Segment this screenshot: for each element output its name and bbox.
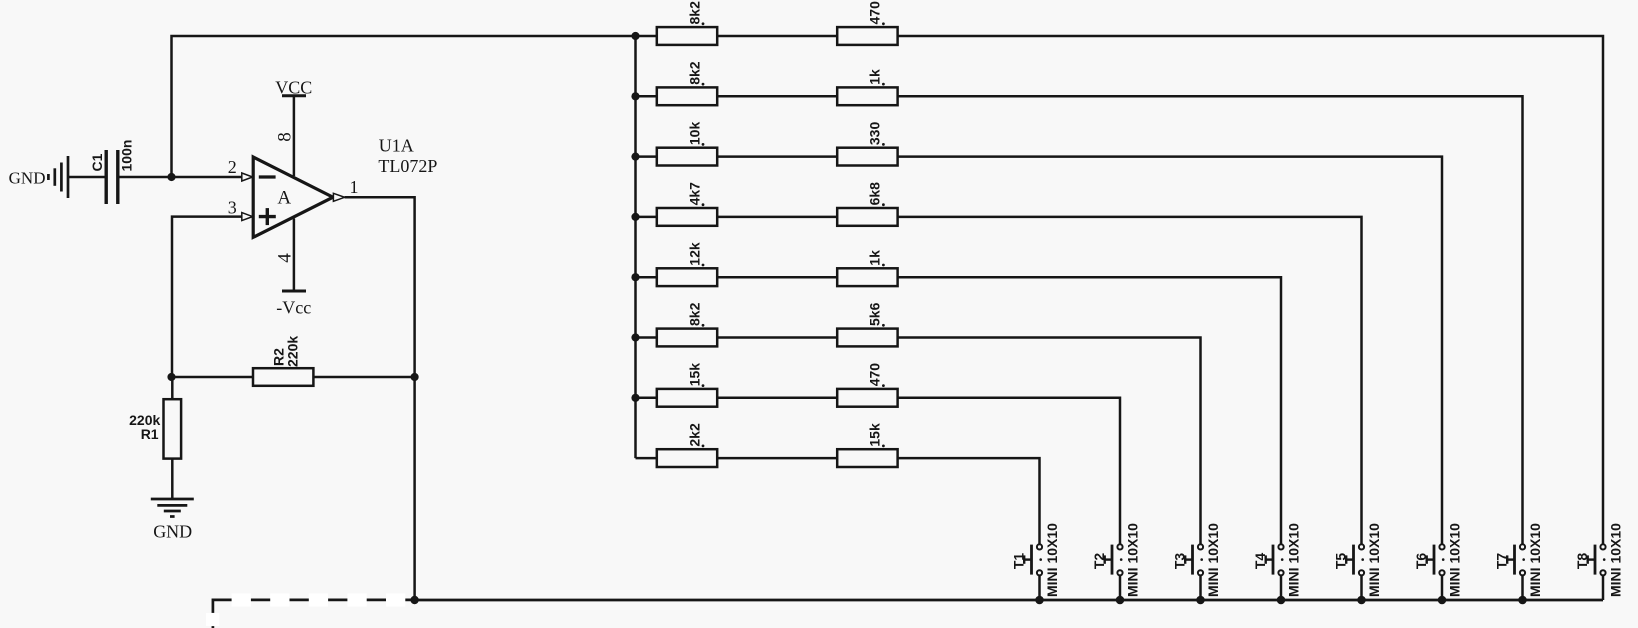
node junction C1/pin2/top wire xyxy=(167,173,175,181)
wire row 2: to switch T7 xyxy=(898,96,1523,543)
resistor R2 220k xyxy=(253,336,313,386)
switch T6 MINI 10X10 xyxy=(1413,523,1462,600)
wire row 1: bus to first resistor xyxy=(636,35,657,38)
node junction bus row 3 xyxy=(631,153,639,161)
node junction bus T1 xyxy=(1035,596,1044,605)
wire row 2: bus to first resistor xyxy=(636,95,657,98)
svg-text:T5: T5 xyxy=(1333,553,1349,570)
svg-text:1: 1 xyxy=(350,177,359,197)
node junction bus T5 xyxy=(1357,596,1366,605)
svg-text:12k: 12k xyxy=(686,242,702,266)
op-amp U1A TL072P xyxy=(228,132,359,263)
node junction bus T7 xyxy=(1518,596,1527,605)
node junction bus row 7 xyxy=(631,394,639,402)
switch T1 MINI 10X10 xyxy=(1011,523,1060,600)
wire row 1: between resistors xyxy=(717,35,837,38)
svg-text:MINI 10X10: MINI 10X10 xyxy=(1527,523,1543,597)
svg-text:1k: 1k xyxy=(867,69,883,85)
svg-text:1k: 1k xyxy=(867,250,883,266)
wire row 1: to switch T8 xyxy=(898,36,1603,544)
svg-text:8k2: 8k2 xyxy=(686,61,702,85)
power VCC rail (pin 8) xyxy=(275,77,312,176)
wire row 6: to switch T3 xyxy=(898,338,1201,544)
wire row 3: bus to first resistor xyxy=(636,155,657,158)
node junction dashed/bus xyxy=(410,596,418,604)
node junction bus T4 xyxy=(1277,596,1286,605)
wire row 6: bus to first resistor xyxy=(636,336,657,339)
wire row 8: to switch T1 xyxy=(898,458,1040,543)
svg-text:5k6: 5k6 xyxy=(867,302,883,326)
wire row 7: to switch T2 xyxy=(898,398,1120,544)
svg-text:MINI 10X10: MINI 10X10 xyxy=(1285,523,1301,597)
svg-text:330: 330 xyxy=(867,122,883,146)
resistor 2k2 (row 8, first) xyxy=(657,423,717,467)
svg-text:2: 2 xyxy=(228,157,237,177)
wire op-amp output down to feedback xyxy=(345,197,415,377)
power -Vcc rail (pin 4) xyxy=(276,219,311,318)
switch T8 MINI 10X10 xyxy=(1574,523,1623,600)
resistor 4k7 (row 4, first) xyxy=(657,182,717,226)
svg-text:220k: 220k xyxy=(285,336,301,367)
wire R2 to output node xyxy=(313,376,414,379)
wire row 2: between resistors xyxy=(717,95,837,98)
resistor 6k8 (row 4, second) xyxy=(837,182,897,226)
switch T3 MINI 10X10 xyxy=(1172,523,1221,600)
resistor 470 (row 7, second) xyxy=(837,363,897,407)
node junction bus row 6 xyxy=(631,333,639,341)
wire C1 to op-amp pin 2 xyxy=(118,176,242,179)
resistor 10k (row 3, first) xyxy=(657,122,717,166)
wire row 4: to switch T5 xyxy=(898,217,1362,544)
resistor 330 (row 3, second) xyxy=(837,122,897,166)
wire row 5: to switch T4 xyxy=(898,277,1281,543)
svg-text:4: 4 xyxy=(274,253,295,263)
wire output node down to bottom bus xyxy=(413,377,416,600)
svg-text:470: 470 xyxy=(867,1,883,25)
capacitor C1 100n xyxy=(89,140,135,204)
wire row 8: bus to first resistor xyxy=(636,457,657,460)
label U1A TL072P xyxy=(378,135,437,176)
svg-text:15k: 15k xyxy=(686,363,702,387)
svg-text:GND: GND xyxy=(9,169,46,188)
svg-text:MINI 10X10: MINI 10X10 xyxy=(1124,523,1140,597)
svg-text:8k2: 8k2 xyxy=(686,302,702,326)
svg-text:T7: T7 xyxy=(1494,553,1510,570)
svg-text:MINI 10X10: MINI 10X10 xyxy=(1366,523,1382,597)
svg-text:GND: GND xyxy=(153,521,192,541)
svg-text:-Vcc: -Vcc xyxy=(276,298,311,318)
node junction bus row 5 xyxy=(631,273,639,281)
wire row 6: between resistors xyxy=(717,336,837,339)
wire R1 top xyxy=(171,377,174,399)
svg-text:10k: 10k xyxy=(686,122,702,146)
resistor 1k (row 5, second) xyxy=(837,250,897,286)
svg-text:470: 470 xyxy=(867,363,883,387)
svg-text:100n: 100n xyxy=(119,140,135,172)
svg-text:MINI 10X10: MINI 10X10 xyxy=(1044,523,1060,597)
resistor R1 220k xyxy=(129,399,181,458)
svg-text:T3: T3 xyxy=(1172,553,1188,570)
svg-text:TL072P: TL072P xyxy=(378,156,437,176)
resistor 1k (row 2, second) xyxy=(837,69,897,105)
wire pin 3 from feedback node xyxy=(172,217,242,377)
switch T2 MINI 10X10 xyxy=(1091,523,1140,600)
node junction bus T6 xyxy=(1438,596,1447,605)
svg-text:T2: T2 xyxy=(1091,553,1107,570)
node junction bus row 1 xyxy=(631,32,639,40)
svg-text:2k2: 2k2 xyxy=(686,423,702,447)
svg-text:T1: T1 xyxy=(1011,553,1027,570)
resistor 470 (row 1, second) xyxy=(837,1,897,45)
svg-text:MINI 10X10: MINI 10X10 xyxy=(1205,523,1221,597)
resistor 8k2 (row 1, first) xyxy=(657,1,717,45)
svg-text:A: A xyxy=(277,188,291,209)
wire row 7: bus to first resistor xyxy=(636,397,657,400)
wire top-left vertical + top horizontal to resistor bus xyxy=(172,36,636,177)
ground GND (left, at C1) xyxy=(9,156,68,198)
resistor 12k (row 5, first) xyxy=(657,242,717,286)
svg-text:R1: R1 xyxy=(141,426,159,442)
node junction R1/R2/pin3 xyxy=(167,373,175,381)
wire row 5: bus to first resistor xyxy=(636,276,657,279)
svg-text:8k2: 8k2 xyxy=(686,1,702,25)
wire row 3: to switch T6 xyxy=(898,157,1442,544)
switch T4 MINI 10X10 xyxy=(1252,523,1301,600)
svg-text:6k8: 6k8 xyxy=(867,182,883,206)
wire row 8: between resistors xyxy=(717,457,837,460)
wire GND to C1 xyxy=(68,176,106,179)
node junction bus T2 xyxy=(1116,596,1125,605)
resistor 5k6 (row 6, second) xyxy=(837,302,897,346)
svg-text:U1A: U1A xyxy=(379,135,414,155)
svg-text:C1: C1 xyxy=(89,153,105,171)
resistor 8k2 (row 2, first) xyxy=(657,61,717,105)
bottom bus wire xyxy=(415,599,1603,602)
node junction bus T3 xyxy=(1196,596,1205,605)
node junction bus row 4 xyxy=(631,213,639,221)
svg-text:T4: T4 xyxy=(1252,553,1268,570)
svg-text:MINI 10X10: MINI 10X10 xyxy=(1607,523,1623,597)
wire (dashed) bottom-left stub xyxy=(206,593,415,628)
svg-text:3: 3 xyxy=(228,197,237,217)
svg-text:15k: 15k xyxy=(867,423,883,447)
wire row 3: between resistors xyxy=(717,155,837,158)
svg-text:MINI 10X10: MINI 10X10 xyxy=(1446,523,1462,597)
ground GND (below R1) xyxy=(151,499,194,541)
svg-text:T8: T8 xyxy=(1574,553,1590,570)
resistor 15k (row 7, first) xyxy=(657,363,717,407)
wire row 4: between resistors xyxy=(717,216,837,219)
wire row 5: between resistors xyxy=(717,276,837,279)
switch T7 MINI 10X10 xyxy=(1494,523,1543,600)
wire row 7: between resistors xyxy=(717,397,837,400)
svg-text:T6: T6 xyxy=(1413,553,1429,570)
node junction output/R2 xyxy=(411,373,419,381)
wire R1 to ground xyxy=(171,459,174,499)
vertical bus (resistor ladder) xyxy=(634,36,637,458)
wire row 4: bus to first resistor xyxy=(636,216,657,219)
switch T5 MINI 10X10 xyxy=(1333,523,1382,600)
node junction bus row 2 xyxy=(631,92,639,100)
svg-text:4k7: 4k7 xyxy=(686,182,702,206)
resistor 8k2 (row 6, first) xyxy=(657,302,717,346)
svg-text:8: 8 xyxy=(274,132,295,142)
resistor 15k (row 8, second) xyxy=(837,423,897,467)
wire feedback node to R2 xyxy=(172,376,254,379)
